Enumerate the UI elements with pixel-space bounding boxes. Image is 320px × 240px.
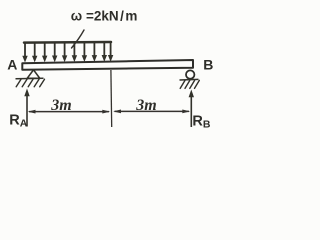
beam: [22, 60, 193, 70]
mid extension line: [110, 70, 113, 127]
pin support A: [27, 70, 40, 79]
ground line B: [180, 78, 199, 81]
load arrow 9: [102, 43, 107, 62]
load arrow 7: [82, 43, 87, 62]
leader line from label to load: [72, 30, 85, 48]
distributed load top line: [24, 41, 111, 44]
svg-text:RA: RA: [9, 112, 27, 129]
load arrow 8: [92, 43, 97, 62]
reaction RB arrow: [189, 90, 194, 128]
reaction RA arrow: [24, 89, 29, 127]
dimension line left span: [28, 110, 111, 114]
load arrow 4: [52, 43, 57, 62]
load arrow 5: [62, 43, 67, 62]
svg-text:ω =2kN/m: ω =2kN/m: [71, 9, 138, 24]
roller support B: [186, 70, 194, 78]
load arrow 6: [72, 43, 77, 62]
load arrow 2: [32, 43, 37, 62]
svg-text:A: A: [7, 57, 17, 73]
load arrow 10 (right edge): [108, 43, 113, 62]
ground hatching B: [180, 80, 199, 88]
ground hatching A: [16, 79, 44, 87]
svg-text:3m: 3m: [135, 97, 156, 114]
svg-text:RB: RB: [192, 114, 210, 131]
dimension line right span: [113, 110, 190, 114]
load arrow 3: [42, 43, 47, 62]
ground line A: [16, 77, 44, 80]
svg-text:3m: 3m: [50, 97, 71, 114]
load arrow 1: [22, 43, 27, 63]
svg-text:B: B: [203, 57, 213, 73]
